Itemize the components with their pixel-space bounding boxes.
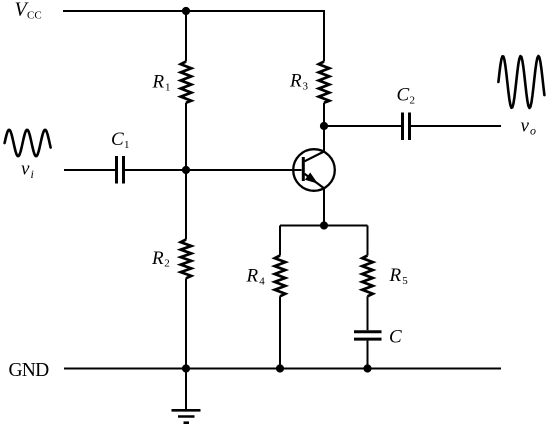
- svg-text:C: C: [111, 129, 124, 150]
- svg-text:1: 1: [124, 139, 130, 151]
- svg-text:R: R: [152, 72, 165, 93]
- svg-text:o: o: [530, 124, 536, 138]
- svg-text:R: R: [246, 265, 259, 286]
- svg-text:GND: GND: [9, 360, 50, 381]
- svg-text:C: C: [389, 327, 402, 348]
- svg-text:CC: CC: [27, 10, 42, 22]
- svg-text:3: 3: [303, 81, 309, 93]
- svg-text:i: i: [31, 167, 34, 181]
- svg-text:R: R: [151, 248, 164, 269]
- svg-text:5: 5: [402, 275, 408, 287]
- svg-text:2: 2: [164, 258, 170, 270]
- svg-text:1: 1: [165, 82, 171, 94]
- svg-text:v: v: [21, 159, 30, 180]
- svg-text:C: C: [397, 84, 410, 105]
- svg-text:R: R: [389, 265, 402, 286]
- svg-text:2: 2: [410, 94, 416, 106]
- svg-text:4: 4: [259, 276, 265, 288]
- svg-text:v: v: [521, 116, 530, 137]
- svg-text:R: R: [289, 71, 302, 92]
